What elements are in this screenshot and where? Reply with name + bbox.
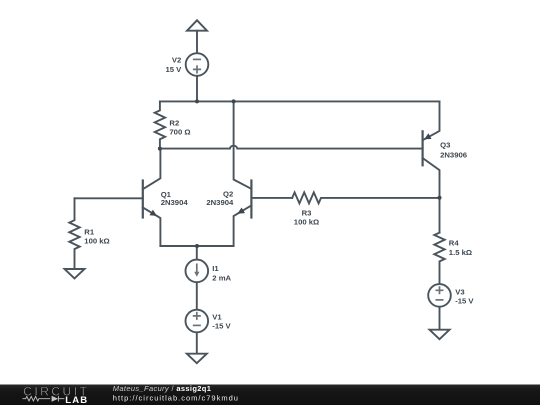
- svg-text:15 V: 15 V: [165, 65, 182, 74]
- svg-text:V2: V2: [172, 56, 181, 65]
- svg-text:1.5 kΩ: 1.5 kΩ: [449, 248, 472, 257]
- svg-text:100 kΩ: 100 kΩ: [294, 218, 319, 227]
- svg-text:700 Ω: 700 Ω: [169, 128, 190, 137]
- svg-text:I1: I1: [212, 264, 219, 273]
- svg-text:Mateus_Facury / assig2q1: Mateus_Facury / assig2q1: [113, 384, 211, 393]
- svg-text:V1: V1: [212, 312, 222, 321]
- svg-text:2N3904: 2N3904: [161, 198, 189, 207]
- svg-text:Q3: Q3: [440, 140, 450, 149]
- svg-text:2N3906: 2N3906: [440, 150, 467, 159]
- svg-text:LAB: LAB: [65, 395, 88, 405]
- svg-text:R1: R1: [84, 228, 95, 237]
- svg-text:100 kΩ: 100 kΩ: [84, 236, 109, 245]
- svg-text:-15 V: -15 V: [212, 322, 231, 331]
- svg-text:R2: R2: [169, 119, 179, 128]
- svg-text:Q2: Q2: [223, 189, 233, 198]
- svg-text:R4: R4: [449, 238, 460, 247]
- svg-text:2 mA: 2 mA: [212, 273, 231, 282]
- svg-text:R3: R3: [302, 208, 312, 217]
- svg-text:2N3904: 2N3904: [206, 198, 234, 207]
- svg-text:-15 V: -15 V: [455, 296, 474, 305]
- svg-text:V3: V3: [455, 287, 464, 296]
- svg-text:http://circuitlab.com/c79kmdu: http://circuitlab.com/c79kmdu: [113, 393, 239, 402]
